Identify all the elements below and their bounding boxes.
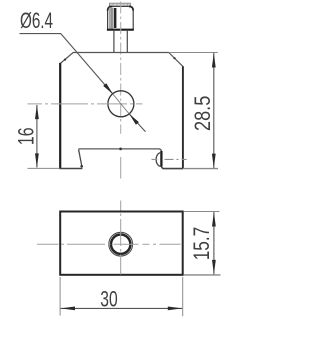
- plate left edge: [59, 63, 61, 169]
- hole horizontal centerline: [37, 243, 187, 245]
- tapped hole inner circle: [111, 235, 130, 254]
- head top corner arcs: [108, 6, 112, 10]
- dim 16: dimension line: [36, 105, 38, 168]
- hole horizontal centerline (also 16-dim extension): [28, 103, 143, 105]
- dovetail slant wall: [79, 150, 82, 168]
- svg-text:16: 16: [13, 128, 38, 146]
- dim 15.7: bottom extension: [184, 274, 221, 276]
- knurl dark bar: [114, 8, 117, 28]
- thumb screw cap: [109, 3, 131, 8]
- plate bottom edge right foot: [163, 168, 184, 170]
- dim 30 right arrow: [168, 307, 183, 311]
- tapped hole outer circle: [109, 232, 133, 256]
- pin centerline left tick: [152, 158, 158, 160]
- svg-text:Ø6.4: Ø6.4: [20, 8, 53, 33]
- dim 15.7: top extension: [184, 211, 220, 213]
- center hole circle: [108, 91, 134, 117]
- leader arrow lower (tip at circle edge): [129, 114, 139, 125]
- dim 15.7: dimension line: [213, 212, 215, 274]
- pin centerline right dashes: [165, 158, 187, 160]
- svg-text:28.5: 28.5: [190, 96, 215, 131]
- dim 28.5 top arrow: [212, 53, 216, 68]
- dim 30: left extension: [59, 277, 61, 316]
- dim 30: dimension line: [61, 307, 183, 309]
- leader arrow upper (tip at circle edge): [103, 83, 113, 94]
- chamfer mark dot right: [173, 57, 175, 59]
- leader line through circle: [113, 94, 129, 114]
- groove right wall (thick): [160, 151, 162, 167]
- dim 15.7 top arrow: [212, 212, 216, 227]
- svg-text:30: 30: [100, 286, 117, 311]
- dim 30 left arrow: [61, 307, 76, 311]
- thumb screw head: [108, 6, 134, 29]
- dim 30: right extension: [182, 277, 184, 316]
- pin dome (D bulge): [156, 153, 161, 167]
- dim 28.5: top extension (top edge extended right): [169, 52, 218, 54]
- chamfer mark dot: [64, 59, 66, 61]
- centerline/ceiling crossing knot: [119, 148, 122, 151]
- vertical centerline (stud + hole axis): [120, 2, 122, 134]
- leader diagonal: [61, 34, 113, 95]
- groove right corner radius: [159, 149, 161, 152]
- hole vertical centerline: [120, 201, 122, 285]
- slant foot knot: [80, 165, 83, 168]
- vertical centerline lower segment: [120, 157, 122, 179]
- dim 16 bottom arrow: [35, 153, 39, 168]
- knurl shading band: [109, 8, 114, 29]
- plate outline rectangle: [60, 212, 183, 275]
- groove ceiling: [78, 148, 159, 150]
- wall bottom corner: [161, 166, 164, 169]
- dim 28.5: bottom extension: [183, 168, 218, 170]
- dim 15.7 bottom arrow: [212, 260, 216, 275]
- leader underline: [20, 33, 62, 35]
- plate bottom edge left foot: [59, 168, 82, 170]
- top-right chamfer: [169, 53, 183, 67]
- leader tail: [129, 114, 145, 132]
- dim 28.5: dimension line: [213, 53, 215, 168]
- plate right edge: [182, 66, 184, 169]
- screw shaft: [113, 30, 115, 53]
- plate top edge: [73, 52, 169, 54]
- top-left chamfer: [60, 53, 73, 64]
- dim 28.5 bottom arrow: [212, 154, 216, 169]
- dim 16 top arrow: [35, 105, 39, 120]
- svg-text:15.7: 15.7: [189, 227, 214, 261]
- dim 16 bottom extension (bottom edge extended left): [28, 167, 60, 169]
- head bottom edge: [107, 29, 134, 31]
